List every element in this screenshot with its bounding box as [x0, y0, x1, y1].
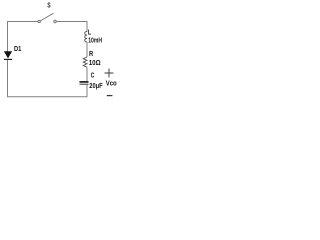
wire right vertical between R and C [86, 67, 88, 81]
switch S left terminal [38, 20, 40, 22]
svg-text:Vco: Vco [106, 81, 117, 88]
wire left vertical upper [7, 21, 9, 52]
capacitor C bottom plate [80, 83, 89, 85]
svg-text:D1: D1 [14, 46, 21, 53]
minus polarity mark [107, 95, 113, 97]
svg-text:10mH: 10mH [88, 37, 102, 44]
svg-text:L: L [88, 29, 92, 36]
diode D1 cathode bar [4, 58, 12, 60]
resistor R zigzag [83, 57, 87, 67]
wire right vertical upper [86, 21, 88, 32]
wire top-right horizontal [56, 21, 87, 23]
switch S right terminal [54, 20, 57, 23]
svg-text:10Ω: 10Ω [89, 60, 101, 67]
svg-text:20μF: 20μF [89, 83, 103, 90]
diode D1 triangle [4, 51, 12, 58]
svg-text:S: S [47, 3, 51, 10]
wire right vertical lower [86, 85, 88, 98]
plus polarity mark [105, 69, 114, 78]
svg-text:R: R [89, 51, 93, 58]
svg-text:C: C [91, 73, 95, 80]
wire right vertical between L and R [86, 42, 88, 57]
wire left vertical lower [7, 60, 9, 97]
wire bottom horizontal [8, 96, 88, 98]
wire top-left horizontal [8, 21, 38, 23]
inductor L [85, 32, 87, 43]
capacitor C top plate [80, 81, 89, 83]
switch S lever [40, 13, 53, 21]
